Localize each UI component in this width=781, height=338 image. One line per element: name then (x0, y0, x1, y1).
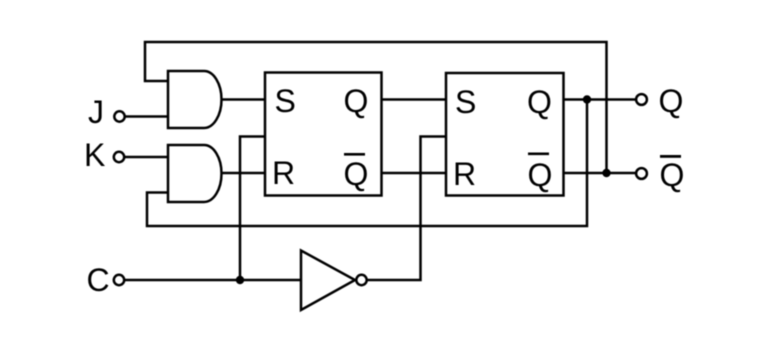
svg-text:R: R (453, 156, 476, 192)
terminal Q output circle (636, 94, 647, 105)
wire: A2 output to latch U1 R input (222, 172, 266, 175)
wire: A1 output to latch U1 S input (222, 98, 266, 101)
svg-text:J: J (88, 94, 104, 130)
svg-text:K: K (84, 137, 105, 173)
wire: bottom feedback from Q node to AND gate A2 input (147, 101, 587, 226)
wire: top feedback from Qbar node to AND gate A1 input (145, 42, 607, 171)
svg-text:S: S (275, 83, 296, 119)
terminal C clock input circle (114, 275, 124, 285)
svg-text:Q: Q (344, 83, 369, 119)
wire: U2 Qbar output to Qbar terminal (564, 172, 637, 175)
AND gate A1 (J steering gate) (168, 71, 222, 128)
wire: clock node up to latch U1 clock input (240, 137, 265, 281)
wire: U1 Q output to U2 S input (382, 98, 447, 101)
inverter U3 output bubble (356, 275, 366, 285)
SR latch U1 (master) box (265, 73, 382, 196)
wire: J input to AND gate A1 (125, 115, 167, 118)
junction: Qbar node (602, 169, 610, 177)
wire: U1 Qbar output to U2 R input (382, 172, 447, 175)
wire: C input to inverter U3 (125, 279, 302, 282)
wire: inverter output to latch U2 clock input (367, 137, 446, 281)
svg-text:Q: Q (528, 157, 553, 193)
terminal J input circle (114, 111, 124, 121)
svg-text:R: R (272, 155, 295, 191)
inverter U3 (301, 251, 355, 311)
svg-text:Q: Q (527, 84, 552, 120)
terminal K input circle (114, 152, 124, 162)
wire: U2 Q output to Q terminal (564, 98, 637, 101)
junction: Q node (583, 95, 591, 103)
svg-text:Q: Q (344, 156, 369, 192)
terminal Qbar output circle (636, 168, 647, 179)
svg-text:C: C (87, 262, 110, 298)
wire: K input to AND gate A2 (125, 156, 168, 159)
svg-text:S: S (455, 84, 476, 120)
svg-text:Q: Q (659, 83, 684, 119)
junction: clock node on C line (236, 276, 244, 284)
AND gate A2 (K steering gate) (168, 145, 222, 202)
SR latch U2 (slave) box (446, 73, 564, 196)
svg-text:Q: Q (660, 157, 685, 193)
